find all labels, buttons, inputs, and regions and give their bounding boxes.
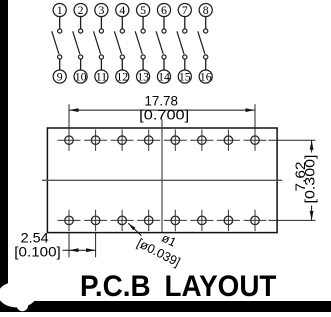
svg-text:10: 10 bbox=[75, 70, 87, 84]
svg-text:P.C.B LAYOUT: P.C.B LAYOUT bbox=[80, 270, 277, 303]
svg-text:3: 3 bbox=[98, 3, 104, 17]
svg-text:9: 9 bbox=[57, 70, 63, 84]
svg-text:8: 8 bbox=[203, 3, 209, 17]
svg-text:5: 5 bbox=[140, 3, 146, 17]
svg-text:2.54: 2.54 bbox=[21, 231, 49, 246]
svg-text:6: 6 bbox=[161, 3, 167, 17]
svg-text:13: 13 bbox=[137, 70, 149, 84]
svg-text:15: 15 bbox=[179, 70, 191, 84]
svg-text:14: 14 bbox=[158, 70, 170, 84]
svg-text:[0.300]: [0.300] bbox=[303, 155, 318, 204]
svg-text:17.78: 17.78 bbox=[144, 94, 178, 109]
svg-text:4: 4 bbox=[119, 3, 125, 17]
svg-text:7: 7 bbox=[182, 3, 188, 17]
svg-text:1: 1 bbox=[57, 3, 63, 17]
svg-text:11: 11 bbox=[96, 70, 107, 84]
svg-text:[0.100]: [0.100] bbox=[14, 245, 61, 260]
svg-text:16: 16 bbox=[200, 70, 212, 84]
svg-text:12: 12 bbox=[116, 70, 128, 84]
svg-text:2: 2 bbox=[78, 3, 84, 17]
svg-text:[0.700]: [0.700] bbox=[139, 108, 189, 123]
